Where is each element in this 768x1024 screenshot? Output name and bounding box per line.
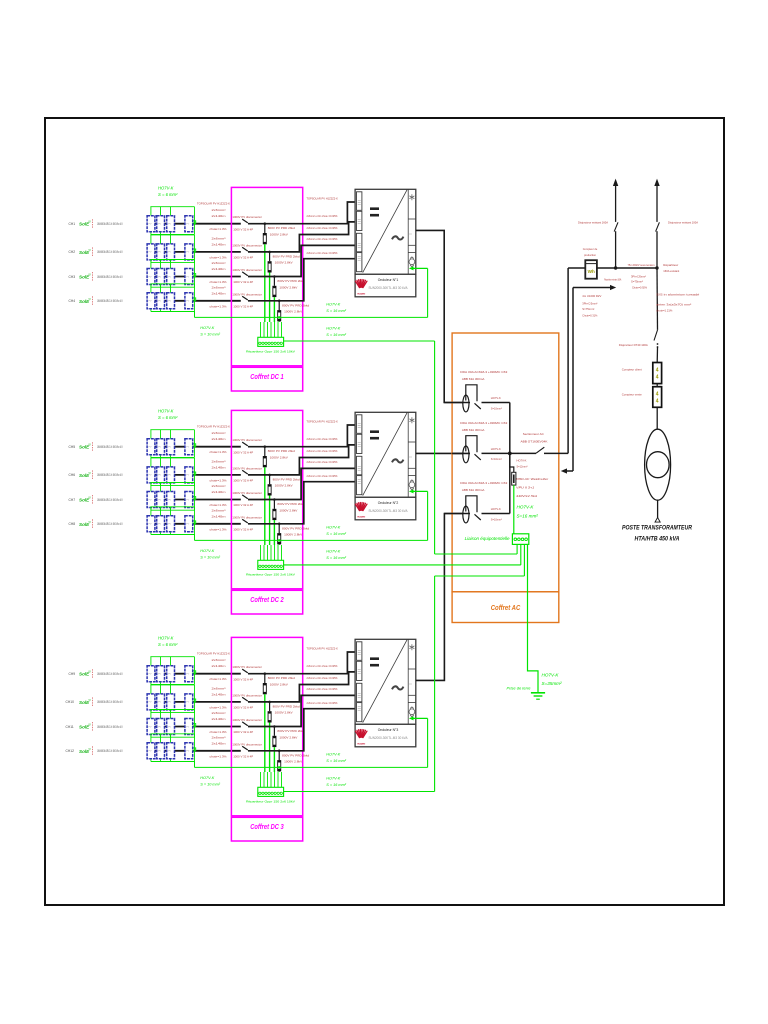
- DC string cable labels right of coffret 2: [306, 420, 338, 479]
- svg-text:S=10mm²: S=10mm²: [491, 457, 502, 461]
- existing breaker 100A (right feeder): [654, 179, 698, 273]
- svg-text:HO7V-K: HO7V-K: [517, 459, 527, 463]
- DC disconnector Q3.3: [232, 718, 262, 734]
- svg-text:JKM450N-6RL3-V 450 Wc x19: JKM450N-6RL3-V 450 Wc x19: [97, 522, 123, 526]
- svg-text:S = 6 mm²: S = 6 mm²: [158, 192, 178, 197]
- svg-text:2x140m: 2x140m: [212, 214, 227, 218]
- svg-text:chute=1.3%: chute=1.3%: [210, 705, 227, 709]
- svg-text:Onduleur N°3: Onduleur N°3: [378, 728, 399, 732]
- svg-text:1000 V 32 A 4P: 1000 V 32 A 4P: [233, 677, 253, 681]
- svg-text:HO7V-K: HO7V-K: [200, 776, 214, 780]
- svg-text:HO7V-K: HO7V-K: [491, 396, 501, 400]
- svg-text:S = 16 mm²: S = 16 mm²: [326, 309, 346, 313]
- svg-text:1000V PV disconnector: 1000V PV disconnector: [232, 243, 262, 247]
- svg-text:2x6mm² et 0m chute ≈0.025%: 2x6mm² et 0m chute ≈0.025%: [307, 437, 338, 441]
- svg-text:1000 V 32 A 4P: 1000 V 32 A 4P: [233, 730, 253, 734]
- svg-text:2x140m: 2x140m: [212, 741, 227, 745]
- string cable labels CH9: [210, 658, 227, 681]
- svg-text:1000V PV disconnector: 1000V PV disconnector: [232, 268, 262, 272]
- svg-text:Disjoncteur DT40 100A: Disjoncteur DT40 100A: [619, 343, 648, 347]
- svg-text:2x140m: 2x140m: [212, 717, 227, 721]
- PV string CH5: [69, 430, 241, 458]
- svg-text:1000V PV disconnector: 1000V PV disconnector: [232, 693, 262, 697]
- svg-text:S = 16 mm²: S = 16 mm²: [326, 333, 346, 337]
- DC surge protector PRD2.2: [268, 474, 300, 545]
- svg-text:JKM450N-6RL3-V 450 Wc x19: JKM450N-6RL3-V 450 Wc x19: [97, 725, 123, 729]
- svg-text:TOPSOLAR PV H1Z2Z2-K: TOPSOLAR PV H1Z2Z2-K: [197, 425, 230, 429]
- svg-text:chute=1.3%: chute=1.3%: [210, 503, 227, 507]
- inverter U2 AC cable: [416, 452, 463, 454]
- svg-text:CH10: CH10: [66, 700, 75, 704]
- svg-text:2x6mm²: 2x6mm²: [212, 236, 226, 240]
- svg-text:Wh: Wh: [588, 269, 595, 274]
- svg-text:Chute=0.31%: Chute=0.31%: [582, 314, 597, 318]
- svg-text:S=16 mm²: S=16 mm²: [517, 514, 539, 519]
- svg-text:2x140m: 2x140m: [212, 437, 227, 441]
- svg-text:2x6mm²: 2x6mm²: [212, 484, 226, 488]
- svg-text:S=10mm²: S=10mm²: [491, 517, 502, 521]
- svg-text:ABB 63A 300mA: ABB 63A 300mA: [462, 488, 485, 492]
- DC surge protector PRD3.4: [277, 750, 309, 773]
- svg-text:1000V 2.8kV: 1000V 2.8kV: [270, 233, 288, 237]
- svg-text:JKM450N-6RL3-V 450 Wc x19: JKM450N-6RL3-V 450 Wc x19: [97, 498, 123, 502]
- earth bus row 1: [195, 303, 428, 337]
- svg-text:3Ph+C/5mm²: 3Ph+C/5mm²: [631, 275, 646, 279]
- svg-text:2x6mm²: 2x6mm²: [212, 686, 226, 690]
- svg-text:VPU II 3+1: VPU II 3+1: [516, 485, 534, 489]
- svg-text:4m U1000 R2V: 4m U1000 R2V: [582, 294, 601, 298]
- svg-text:PRD AC Weidmuller: PRD AC Weidmuller: [516, 477, 549, 481]
- svg-text:1000 V 32 A 4P: 1000 V 32 A 4P: [233, 304, 253, 308]
- svg-text:S = 10 mm²: S = 10 mm²: [200, 556, 220, 560]
- svg-text:1000 V 32 A 4P: 1000 V 32 A 4P: [233, 706, 253, 710]
- DC surge protector PRD3.1: [263, 672, 295, 772]
- PV string CH11: [66, 710, 241, 738]
- AC differential breaker DDA3: [444, 481, 510, 523]
- svg-text:HO7V-K: HO7V-K: [158, 186, 174, 191]
- svg-text:4: 4: [656, 368, 659, 374]
- AC differential breaker DDA1: [444, 370, 510, 412]
- svg-text:DDA 30A AC63/L3 +030MC C63: DDA 30A AC63/L3 +030MC C63: [460, 421, 507, 425]
- svg-text:CH2: CH2: [69, 250, 76, 254]
- svg-text:CH5: CH5: [69, 445, 76, 449]
- svg-text:2x6mm² et 0m chute ≈0.025%: 2x6mm² et 0m chute ≈0.025%: [307, 237, 338, 241]
- svg-text:2x140m: 2x140m: [212, 291, 227, 295]
- svg-text:CH8: CH8: [69, 522, 76, 526]
- svg-text:Compteur vente: Compteur vente: [622, 392, 642, 396]
- svg-text:S = 16 mm²: S = 16 mm²: [326, 556, 346, 560]
- svg-text:S/S in aluminium torsadé: S/S in aluminium torsadé: [656, 293, 700, 297]
- svg-text:chute=1.3%: chute=1.3%: [210, 227, 227, 231]
- svg-text:1000V 2.8kV: 1000V 2.8kV: [270, 456, 288, 460]
- svg-text:1000 V 32 A 4P: 1000 V 32 A 4P: [233, 280, 253, 284]
- svg-text:chute=1.3%: chute=1.3%: [210, 450, 227, 454]
- svg-text:1000 V 32 A 4P: 1000 V 32 A 4P: [233, 227, 253, 231]
- svg-text:DDA 30A AC63/L3 +030MC C63: DDA 30A AC63/L3 +030MC C63: [460, 370, 507, 374]
- svg-text:2x6mm² et 0m chute ≈0.025%: 2x6mm² et 0m chute ≈0.025%: [307, 226, 338, 230]
- PV string CH9: [69, 657, 241, 685]
- svg-text:JKM450N-6RL3-V 450 Wc x19: JKM450N-6RL3-V 450 Wc x19: [97, 749, 123, 753]
- svg-text:airien 3x(a3x70) mm²: airien 3x(a3x70) mm²: [656, 303, 691, 307]
- DC disconnector Q2.2: [232, 466, 262, 482]
- svg-text:HO7V-K: HO7V-K: [491, 507, 501, 511]
- svg-text:HO7V-K: HO7V-K: [326, 526, 340, 530]
- DC surge protector PRD2.1: [263, 445, 295, 545]
- overhead line to transformer + DT40 breaker: [619, 268, 700, 363]
- svg-text:75m R02V sous tension: 75m R02V sous tension: [628, 263, 655, 267]
- svg-text:2x6mm²: 2x6mm²: [212, 658, 226, 662]
- svg-text:S = 16 mm²: S = 16 mm²: [326, 532, 346, 536]
- svg-text:Coffret DC 1: Coffret DC 1: [250, 372, 284, 381]
- DC surge protector PRD3.2: [268, 701, 300, 772]
- svg-text:3Ph+C/5mm²: 3Ph+C/5mm²: [582, 302, 597, 306]
- svg-text:1000V 2.8kV: 1000V 2.8kV: [275, 711, 293, 715]
- PV string CH8: [69, 507, 241, 535]
- svg-text:SUN2000-30KTL-M3 30 kVA: SUN2000-30KTL-M3 30 kVA: [369, 736, 409, 740]
- AC link cable (4m U1000 R2V) with arrows: [561, 285, 616, 474]
- svg-text:CH9: CH9: [69, 672, 76, 676]
- svg-text:1000V 2.8kV: 1000V 2.8kV: [284, 760, 302, 764]
- svg-text:CH6: CH6: [69, 473, 76, 477]
- svg-text:4: 4: [656, 392, 659, 398]
- svg-text:TOPSOLAR PV H1Z2Z2-K: TOPSOLAR PV H1Z2Z2-K: [197, 652, 230, 656]
- svg-text:2x6mm² et 0m chute ≈0.025%: 2x6mm² et 0m chute ≈0.025%: [307, 676, 338, 680]
- DC wires coffret 3 to inverter U3: [248, 652, 355, 751]
- svg-text:Liaison équipotentielle: Liaison équipotentielle: [465, 536, 511, 541]
- svg-text:2x140m: 2x140m: [212, 664, 227, 668]
- svg-text:chute=1.21%: chute=1.21%: [656, 309, 672, 313]
- svg-text:1000 V 32 A 4P: 1000 V 32 A 4P: [233, 256, 253, 260]
- string cable labels CH2: [210, 236, 227, 259]
- svg-text:2x6mm²: 2x6mm²: [212, 431, 226, 435]
- AC surge protector PRD AC: [510, 453, 550, 497]
- svg-text:Prise de terre: Prise de terre: [507, 686, 532, 691]
- svg-text:CH12: CH12: [66, 749, 75, 753]
- svg-text:1000V 2.8kV: 1000V 2.8kV: [275, 261, 293, 265]
- svg-text:2x6mm² et 0m chute ≈0.025%: 2x6mm² et 0m chute ≈0.025%: [307, 701, 338, 705]
- DC surge protector PRD3.3: [272, 725, 304, 772]
- svg-text:HO7V-K: HO7V-K: [158, 636, 174, 641]
- DC disconnector Q2.4: [232, 515, 262, 531]
- svg-text:1000V 2.8kV: 1000V 2.8kV: [270, 683, 288, 687]
- earth electrode connection (prise de terre): [507, 544, 563, 699]
- DC disconnector Q1.1: [232, 215, 262, 231]
- svg-text:SUN2000-30KTL-M3 30 kVA: SUN2000-30KTL-M3 30 kVA: [369, 509, 409, 513]
- svg-text:Chute=0.92%: Chute=0.92%: [632, 286, 647, 290]
- coffret DC 3 enclosure: [231, 637, 302, 841]
- svg-text:CH3: CH3: [69, 275, 76, 279]
- svg-text:4: 4: [656, 375, 659, 381]
- svg-text:chute=1.3%: chute=1.3%: [210, 255, 227, 259]
- svg-text:2x140m: 2x140m: [212, 692, 227, 696]
- svg-text:ABB OT160EV04K: ABB OT160EV04K: [521, 439, 548, 443]
- svg-text:2x140m: 2x140m: [212, 514, 227, 518]
- svg-text:2x6mm² et 0m chute ≈0.025%: 2x6mm² et 0m chute ≈0.025%: [307, 664, 338, 668]
- svg-text:HO7V-K: HO7V-K: [326, 753, 340, 757]
- svg-text:CH11: CH11: [66, 725, 74, 729]
- svg-text:800V PV PRD 2bkd: 800V PV PRD 2bkd: [273, 477, 300, 481]
- svg-text:chute=1.3%: chute=1.3%: [210, 677, 227, 681]
- DC string cable labels right of coffret 3: [306, 647, 338, 706]
- DC surge protector PRD2.4: [277, 523, 309, 546]
- svg-text:2x6mm²: 2x6mm²: [212, 261, 226, 265]
- coffret DC 2 enclosure: [231, 410, 302, 614]
- svg-text:HO7V-K: HO7V-K: [326, 303, 340, 307]
- svg-text:POSTE TRANSFORAMTEUR: POSTE TRANSFORAMTEUR: [622, 525, 692, 532]
- svg-text:1000V PV disconnector: 1000V PV disconnector: [232, 438, 262, 442]
- existing breaker 160A (left feeder): [578, 179, 618, 268]
- svg-text:800V PV PRD 2bkd: 800V PV PRD 2bkd: [282, 303, 309, 307]
- svg-text:2x6mm²: 2x6mm²: [212, 285, 226, 289]
- svg-text:1000V PV disconnector: 1000V PV disconnector: [232, 466, 262, 470]
- svg-text:JKM450N-6RL3-V 450 Wc x19: JKM450N-6RL3-V 450 Wc x19: [97, 222, 123, 226]
- svg-text:1000V PV disconnector: 1000V PV disconnector: [232, 515, 262, 519]
- svg-text:1000V PV disconnector: 1000V PV disconnector: [232, 718, 262, 722]
- svg-text:Onduleur N°1: Onduleur N°1: [378, 278, 399, 282]
- HO7V-K S=6mm2 earth label row 2: [158, 409, 178, 421]
- svg-text:Coffret DC 2: Coffret DC 2: [250, 595, 284, 604]
- DC wires coffret 2 to inverter U2: [248, 425, 355, 524]
- inverter U3 (Huawei SUN2000): [355, 639, 416, 747]
- PV string CH2: [69, 235, 241, 263]
- DC disconnector Q3.2: [232, 693, 262, 709]
- svg-text:2x6mm² et 0m chute ≈0.025%: 2x6mm² et 0m chute ≈0.025%: [307, 460, 338, 464]
- svg-text:1000 V 32 A 4P: 1000 V 32 A 4P: [233, 503, 253, 507]
- DC surge protector PRD1.4: [277, 300, 309, 323]
- svg-text:JKM450N-6RL3-V 450 Wc x19: JKM450N-6RL3-V 450 Wc x19: [97, 672, 123, 676]
- svg-text:HO7V-K: HO7V-K: [326, 550, 340, 554]
- svg-text:1000V 2.8kV: 1000V 2.8kV: [279, 285, 297, 289]
- svg-text:Répartiteur Oppr 150 2x6 10kV: Répartiteur Oppr 150 2x6 10kV: [246, 350, 295, 354]
- DC string cable labels right of coffret 1: [306, 197, 338, 256]
- PV string CH12: [66, 734, 241, 762]
- grid connection cable labels: [628, 263, 655, 290]
- string cable labels CH6: [210, 459, 227, 482]
- TOPSOLAR PV cable label row 3: [197, 652, 230, 656]
- svg-text:1000V 2.8kV: 1000V 2.8kV: [279, 735, 297, 739]
- svg-text:2x6mm²: 2x6mm²: [212, 508, 226, 512]
- svg-text:S = 6 mm²: S = 6 mm²: [158, 415, 178, 420]
- svg-text:1000V PV disconnector: 1000V PV disconnector: [232, 665, 262, 669]
- svg-text:2x6mm²: 2x6mm²: [212, 459, 226, 463]
- svg-text:800V PV PRD 2bkd: 800V PV PRD 2bkd: [282, 526, 309, 530]
- svg-text:800V PV PRD 2bkd: 800V PV PRD 2bkd: [277, 729, 304, 733]
- DC surge protector PRD1.3: [272, 275, 304, 322]
- svg-text:TOPSOLAR PV H1Z2Z2-K: TOPSOLAR PV H1Z2Z2-K: [306, 420, 338, 424]
- svg-text:production: production: [584, 253, 596, 257]
- string cable labels CH1: [210, 208, 227, 231]
- earth bus row 3: [195, 753, 428, 787]
- svg-text:JKM450N-6RL3-V 450 Wc x19: JKM450N-6RL3-V 450 Wc x19: [97, 250, 123, 254]
- svg-text:Répartiteur existant 160A: Répartiteur existant 160A: [604, 278, 621, 282]
- DC disconnector Q1.4: [232, 292, 262, 308]
- svg-text:800V PV PRD 2bkd: 800V PV PRD 2bkd: [268, 226, 295, 230]
- svg-text:2x6mm² et 0m chute ≈0.025%: 2x6mm² et 0m chute ≈0.025%: [307, 251, 338, 255]
- svg-text:S=75mm²: S=75mm²: [631, 280, 643, 284]
- svg-text:4: 4: [656, 399, 659, 405]
- svg-text:CH7: CH7: [69, 498, 76, 502]
- svg-text:2x6mm² et 0m chute ≈0.025%: 2x6mm² et 0m chute ≈0.025%: [307, 214, 338, 218]
- PV string CH10: [66, 685, 241, 713]
- TOPSOLAR PV cable label row 1: [197, 202, 230, 206]
- svg-text:HO7V-K: HO7V-K: [517, 505, 535, 510]
- DC disconnector Q1.2: [232, 243, 262, 259]
- svg-text:1000 V 32 A 4P: 1000 V 32 A 4P: [233, 754, 253, 758]
- inverter U1 AC cable: [416, 230, 463, 402]
- string cable labels CH11: [210, 711, 227, 734]
- sale meter (Compteur vente): [622, 384, 662, 408]
- DC wires coffret 1 to inverter U1: [248, 202, 355, 301]
- PV string CH4: [69, 284, 241, 312]
- HO7V-K S=6mm2 earth label row 3: [158, 636, 178, 648]
- PV string CH6: [69, 458, 241, 486]
- svg-text:S = 10 mm²: S = 10 mm²: [200, 333, 220, 337]
- svg-text:S=10mm²: S=10mm²: [491, 406, 502, 410]
- transformer T1 HTA/HTB: [622, 407, 692, 542]
- string cable labels CH12: [210, 735, 227, 758]
- AC differential breaker DDA2: [452, 421, 510, 463]
- svg-text:chute=1.3%: chute=1.3%: [210, 280, 227, 284]
- svg-text:TOPSOLAR PV H1Z2Z2-K: TOPSOLAR PV H1Z2Z2-K: [197, 202, 230, 206]
- svg-text:HUAWEI: HUAWEI: [357, 743, 365, 746]
- PV string CH1: [69, 207, 241, 235]
- svg-text:Compteur client: Compteur client: [622, 367, 642, 371]
- svg-text:chute=1.3%: chute=1.3%: [210, 478, 227, 482]
- HO7V-K S=6mm2 earth label row 1: [158, 186, 178, 198]
- svg-text:Coffret DC 3: Coffret DC 3: [250, 822, 284, 831]
- svg-text:HUAWEI: HUAWEI: [357, 293, 365, 296]
- svg-text:ABB 63A 300mA: ABB 63A 300mA: [462, 428, 485, 432]
- svg-text:800V PV PRD 2bkd: 800V PV PRD 2bkd: [282, 753, 309, 757]
- svg-text:ABB 63A 300mA: ABB 63A 300mA: [462, 377, 485, 381]
- svg-text:chute=1.3%: chute=1.3%: [210, 527, 227, 531]
- wire meter to distribution node: [597, 266, 659, 281]
- svg-text:800V PV PRD 2bkd: 800V PV PRD 2bkd: [277, 502, 304, 506]
- client meter (Compteur client): [622, 363, 662, 384]
- svg-text:HTA/HTB 450 kVA: HTA/HTB 450 kVA: [635, 537, 680, 543]
- svg-text:Sectionneur AC: Sectionneur AC: [523, 432, 545, 436]
- svg-text:HO7V-K: HO7V-K: [491, 447, 501, 451]
- string cable labels CH5: [210, 431, 227, 454]
- AC cable coffret to production meter: [568, 268, 585, 453]
- TOPSOLAR PV cable label row 2: [197, 425, 230, 429]
- svg-text:CH1: CH1: [69, 222, 76, 226]
- svg-text:Onduleur N°2: Onduleur N°2: [378, 501, 399, 505]
- svg-text:800V PV PRD 2bkd: 800V PV PRD 2bkd: [268, 676, 295, 680]
- svg-text:HO7V-K: HO7V-K: [542, 673, 560, 678]
- string cable labels CH7: [210, 484, 227, 507]
- svg-text:S = 10 mm²: S = 10 mm²: [200, 783, 220, 787]
- earth bus row 2: [195, 526, 428, 560]
- string cable labels CH3: [210, 261, 227, 284]
- svg-text:JKM450N-6RL3-V 450 Wc x19: JKM450N-6RL3-V 450 Wc x19: [97, 299, 123, 303]
- inverter U3 earth wire: [409, 716, 428, 767]
- DC earth distribution block row 1: [246, 322, 295, 354]
- coffret AC enclosure: [452, 333, 559, 623]
- DC disconnector Q3.1: [232, 665, 262, 681]
- svg-text:S = 16 mm²: S = 16 mm²: [326, 783, 346, 787]
- earth links rows to equipotential block: [284, 341, 525, 792]
- DC earth distribution block row 3: [246, 772, 295, 804]
- string cable labels CH10: [210, 686, 227, 709]
- string cable labels CH8: [210, 508, 227, 531]
- svg-text:2x140m: 2x140m: [212, 242, 227, 246]
- svg-text:2x6mm²: 2x6mm²: [212, 208, 226, 212]
- svg-text:Disjoncteur existant 100A: Disjoncteur existant 100A: [668, 221, 698, 225]
- svg-text:JKM450N-6RL3-V 450 Wc x19: JKM450N-6RL3-V 450 Wc x19: [97, 445, 123, 449]
- svg-text:2x6mm²: 2x6mm²: [212, 735, 226, 739]
- svg-text:2x6mm² et 0m chute ≈0.025%: 2x6mm² et 0m chute ≈0.025%: [307, 449, 338, 453]
- svg-text:S=35mm²: S=35mm²: [542, 681, 563, 686]
- svg-text:1000V 2.8kV: 1000V 2.8kV: [279, 508, 297, 512]
- svg-text:chute=1.3%: chute=1.3%: [210, 730, 227, 734]
- equipotential link block: [465, 534, 529, 545]
- PV string CH7: [69, 483, 241, 511]
- svg-text:2x140m: 2x140m: [212, 490, 227, 494]
- DC disconnector Q2.1: [232, 438, 262, 454]
- inverter U2 earth wire: [409, 489, 428, 540]
- svg-text:1000V 2.8kV: 1000V 2.8kV: [284, 310, 302, 314]
- svg-text:Répartiteur Oppr 150 2x6 10kV: Répartiteur Oppr 150 2x6 10kV: [246, 573, 295, 577]
- string cable labels CH4: [210, 285, 227, 308]
- svg-text:TOPSOLAR PV H1Z2Z2-K: TOPSOLAR PV H1Z2Z2-K: [306, 647, 338, 651]
- svg-text:1000 V 32 A 4P: 1000 V 32 A 4P: [233, 527, 253, 531]
- svg-text:HO7V-K: HO7V-K: [326, 327, 340, 331]
- svg-text:2x140m: 2x140m: [212, 267, 227, 271]
- svg-text:DDA 30A AC63/L3 +030MC C63: DDA 30A AC63/L3 +030MC C63: [460, 481, 507, 485]
- svg-text:440V/12.5kA: 440V/12.5kA: [516, 494, 537, 498]
- svg-text:JKM450N-6RL3-V 450 Wc x19: JKM450N-6RL3-V 450 Wc x19: [97, 700, 123, 704]
- svg-text:CH4: CH4: [69, 299, 76, 303]
- svg-text:1000V PV disconnector: 1000V PV disconnector: [232, 491, 262, 495]
- coffret DC 1 enclosure: [231, 187, 302, 391]
- PV string CH3: [69, 260, 241, 288]
- DC disconnector Q3.4: [232, 742, 262, 758]
- svg-text:JKM450N-6RL3-V 450 Wc x19: JKM450N-6RL3-V 450 Wc x19: [97, 473, 123, 477]
- svg-text:chute=1.3%: chute=1.3%: [210, 754, 227, 758]
- svg-text:Répartiteur Oppr 150 2x6 10kV: Répartiteur Oppr 150 2x6 10kV: [246, 800, 295, 804]
- production meter (Compteur de production): [583, 247, 598, 279]
- svg-text:HO7V-K: HO7V-K: [326, 777, 340, 781]
- svg-text:800V PV PRD 2bkd: 800V PV PRD 2bkd: [273, 704, 300, 708]
- svg-text:800V PV PRD 2bkd: 800V PV PRD 2bkd: [273, 254, 300, 258]
- svg-text:2x140m: 2x140m: [212, 465, 227, 469]
- svg-text:1000 V 32 A 4P: 1000 V 32 A 4P: [233, 479, 253, 483]
- inverter U3 AC cable: [416, 514, 463, 681]
- DC earth distribution block row 2: [246, 545, 295, 577]
- svg-text:1000 V 32 A 4P: 1000 V 32 A 4P: [233, 450, 253, 454]
- inverter U1 earth wire: [409, 266, 428, 317]
- svg-text:Répartiteur: Répartiteur: [663, 263, 678, 267]
- svg-text:1000V 2.8kV: 1000V 2.8kV: [284, 533, 302, 537]
- svg-text:2x6mm² et 0m chute ≈0.025%: 2x6mm² et 0m chute ≈0.025%: [307, 474, 338, 478]
- DC surge protector PRD1.2: [268, 251, 300, 322]
- svg-text:Coffret AC: Coffret AC: [491, 603, 521, 612]
- DC disconnector Q1.3: [232, 268, 262, 284]
- svg-text:SUN2000-30KTL-M3 30 kVA: SUN2000-30KTL-M3 30 kVA: [369, 286, 409, 290]
- svg-text:Compteur de: Compteur de: [583, 247, 598, 251]
- svg-text:HUAWEI: HUAWEI: [357, 516, 365, 519]
- svg-text:HO7V-K: HO7V-K: [200, 549, 214, 553]
- AC disconnector (Sectionneur): [510, 432, 568, 453]
- svg-text:HO7V-K: HO7V-K: [200, 326, 214, 330]
- svg-text:chute=1.3%: chute=1.3%: [210, 304, 227, 308]
- svg-text:1000V PV disconnector: 1000V PV disconnector: [232, 292, 262, 296]
- svg-text:TOPSOLAR PV H1Z2Z2-K: TOPSOLAR PV H1Z2Z2-K: [306, 197, 338, 201]
- svg-text:800V PV PRD 2bkd: 800V PV PRD 2bkd: [277, 279, 304, 283]
- inverter U1 (Huawei SUN2000): [355, 189, 416, 296]
- svg-text:S=12mm²: S=12mm²: [517, 465, 528, 469]
